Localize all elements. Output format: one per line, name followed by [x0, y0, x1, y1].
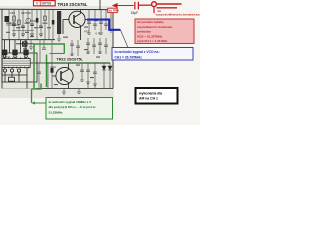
svg-text:czyli CH 1 = 1,43 MHz: czyli CH 1 = 1,43 MHz — [137, 39, 168, 43]
svg-text:C69: C69 — [30, 19, 36, 23]
svg-text:wykonania dla: wykonania dla — [138, 92, 162, 96]
svg-text:C84: C84 — [10, 11, 16, 15]
svg-text:do PPM: do PPM — [109, 9, 120, 13]
svg-text:częstotliwość różnicowa: częstotliwość różnicowa — [137, 25, 172, 29]
svg-text:VCO = 31,337MHz: VCO = 31,337MHz — [137, 34, 163, 38]
svg-text:MPX8: MPX8 — [42, 2, 52, 6]
svg-text:31,33MHz: 31,33MHz — [49, 110, 64, 114]
svg-text:470: 470 — [84, 30, 89, 34]
svg-text:MPX08: MPX08 — [21, 11, 31, 15]
svg-text:21010: 21010 — [3, 55, 11, 59]
svg-text:AM na CH 1: AM na CH 1 — [139, 97, 158, 101]
svg-text:15µF: 15µF — [131, 11, 139, 15]
svg-text:do pomiaru byłaby: do pomiaru byłaby — [137, 20, 164, 24]
svg-text:50Ω: 50Ω — [51, 65, 56, 69]
svg-text:-częstotliwościomierza: -częstotliwościomierza — [155, 13, 200, 17]
svg-text:pomiędzy: pomiędzy — [137, 30, 151, 34]
svg-text:CH1 = 26,765MHz: CH1 = 26,765MHz — [115, 55, 143, 59]
svg-text:TR22 2SC675L: TR22 2SC675L — [57, 58, 84, 62]
svg-text:tu wchodzi sygnał z VCO na :: tu wchodzi sygnał z VCO na : — [115, 50, 161, 54]
svg-text:4.7k: 4.7k — [95, 32, 101, 36]
svg-text:dla pozycji β KO-u ... A to: dla pozycji β KO-u ... A to jest to — [49, 105, 96, 109]
svg-text:C66: C66 — [10, 21, 16, 25]
svg-text:tu wchodzi sygnał 10MHz x 3: tu wchodzi sygnał 10MHz x 3 — [49, 100, 92, 104]
svg-text:TR19 2SC675L: TR19 2SC675L — [58, 2, 88, 7]
